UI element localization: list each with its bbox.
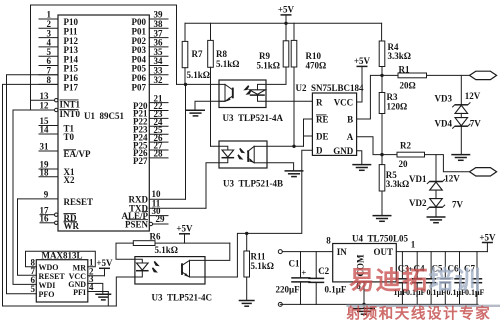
ground (U3B emitter) xyxy=(267,163,304,177)
svg-text:R8: R8 xyxy=(216,49,227,59)
zener VD1 12V xyxy=(409,155,460,191)
wire U3B collector to U2 RE/DE xyxy=(267,145,304,148)
IC U4 TL750L05 xyxy=(333,233,409,282)
U1 pin 10 RXD xyxy=(129,189,186,205)
svg-text:5.1kΩ: 5.1kΩ xyxy=(187,70,210,80)
svg-text:INT0: INT0 xyxy=(60,109,81,119)
svg-text:VCC: VCC xyxy=(334,98,354,108)
U1 pin 34 P05 xyxy=(132,56,169,74)
wire U3C cathode to bottom rail xyxy=(116,277,135,306)
MAX813L pin 7 RESET xyxy=(31,266,66,281)
svg-text:+5V: +5V xyxy=(354,56,371,66)
svg-text:U3 TLP521-4C: U3 TLP521-4C xyxy=(152,292,213,302)
capacitor C4 xyxy=(412,252,422,305)
U1 pin 21 P20 xyxy=(133,93,168,111)
resistor R4 3.3k xyxy=(379,23,411,77)
svg-text:3.3kΩ: 3.3kΩ xyxy=(386,179,409,189)
U1 pin 2 P11 xyxy=(39,19,78,37)
capacitor labels C3..C7 xyxy=(398,263,476,274)
svg-text:+5V: +5V xyxy=(176,224,193,234)
svg-text:WR: WR xyxy=(64,221,80,231)
U1 pin 33 P06 xyxy=(132,66,169,84)
+5V rail (top) xyxy=(185,22,382,24)
MAX813L pin 6 WDI xyxy=(31,275,56,290)
resistor R2 20 xyxy=(382,140,470,172)
U1 pin 12 INT0 xyxy=(31,101,81,119)
svg-text:470Ω: 470Ω xyxy=(306,61,327,71)
svg-text:31: 31 xyxy=(40,142,50,152)
IC MAX813L xyxy=(36,250,88,302)
U1 pin 11 TXD xyxy=(129,198,206,213)
U3B LED xyxy=(211,146,235,163)
svg-text:WDO: WDO xyxy=(39,263,59,272)
terminal (power in -) xyxy=(278,302,282,306)
U1 pin 18 X2 xyxy=(39,167,75,185)
label U3 TLP521-4B xyxy=(223,179,283,189)
U1 pin 28 P27 xyxy=(133,149,168,167)
wire IN line xyxy=(282,236,332,252)
+5V symbol (R6 line) xyxy=(176,224,193,244)
capacitor C1 220uF xyxy=(276,252,311,305)
svg-text:20Ω: 20Ω xyxy=(400,80,416,90)
U3A photo-transistor xyxy=(219,84,233,101)
svg-text:13: 13 xyxy=(40,91,50,101)
svg-text:OUT: OUT xyxy=(373,247,393,257)
capacitor C3 xyxy=(397,252,407,305)
svg-text:+5V: +5V xyxy=(479,232,496,242)
svg-text:INT1: INT1 xyxy=(60,99,81,109)
svg-text:RE: RE xyxy=(316,114,329,124)
capacitor C6 xyxy=(440,252,450,305)
U1 pin 7 P16 xyxy=(39,66,78,84)
U1 pin 6 P15 xyxy=(39,56,78,74)
wire P17 to bottom rail xyxy=(3,84,59,306)
U1 pin 1 P10 xyxy=(39,10,78,28)
wire P16 to MAX813L PFO xyxy=(7,75,59,294)
resistor R3 120 xyxy=(379,75,407,156)
U2 pin RE xyxy=(304,114,329,124)
label U3 TLP521-4C xyxy=(152,292,213,302)
wire TXD riser xyxy=(206,163,219,209)
opto-coupler U3 TLP521-4C xyxy=(135,257,205,284)
U3B light arrows xyxy=(237,148,245,160)
U1 pin 22 P21 xyxy=(133,101,168,119)
U1 pin 14 T0 xyxy=(39,125,75,143)
U2 pin A xyxy=(347,132,382,155)
opto-coupler U3 TLP521-4B xyxy=(219,141,267,168)
svg-text:T0: T0 xyxy=(64,132,75,142)
svg-text:VD1: VD1 xyxy=(409,174,427,184)
U3A light arrows xyxy=(243,85,251,95)
svg-text:EA/VP: EA/VP xyxy=(64,149,92,159)
svg-text:RESET: RESET xyxy=(64,197,94,207)
U2 pin D xyxy=(316,146,323,156)
svg-text:MAX813L: MAX813L xyxy=(42,250,83,260)
svg-text:B: B xyxy=(347,114,353,124)
svg-text:D: D xyxy=(316,146,323,156)
resistor R10 470 xyxy=(291,23,326,146)
svg-text:易迪拓培训: 易迪拓培训 xyxy=(349,266,482,295)
U1 pin 38 P01 xyxy=(132,19,169,37)
svg-text:5: 5 xyxy=(31,284,36,294)
svg-text:VD3: VD3 xyxy=(435,93,453,103)
wire U3C emitter to D net xyxy=(205,276,237,278)
ground (R5) xyxy=(373,216,392,222)
ground (MAX813L) xyxy=(95,294,111,300)
MAX813L pin 2 VCC xyxy=(69,266,105,281)
label U3 TLP521-4A xyxy=(223,113,284,123)
U2 pin VCC xyxy=(334,66,362,107)
svg-text:5.1kΩ: 5.1kΩ xyxy=(257,61,280,71)
U2 pin GND xyxy=(333,146,362,165)
node P07/R7/RXD junction xyxy=(177,83,220,86)
svg-text:8: 8 xyxy=(326,236,331,246)
svg-text:1: 1 xyxy=(411,240,416,250)
+5V symbol (U4 OUT) xyxy=(479,232,496,251)
svg-text:DE: DE xyxy=(316,131,329,141)
U1 pin 13 INT1 xyxy=(31,91,81,109)
svg-text:12: 12 xyxy=(40,101,50,111)
svg-text:R11: R11 xyxy=(251,251,267,261)
wire U3A LED cathode to U2 R xyxy=(266,100,312,102)
svg-text:5.1kΩ: 5.1kΩ xyxy=(216,59,239,69)
zener VD2 7V xyxy=(409,190,464,217)
U2 pin DE xyxy=(304,119,329,146)
U1 pin 23 P22 xyxy=(133,109,168,127)
U1 pin 8 P17 xyxy=(39,75,78,93)
wire U2 D net xyxy=(237,150,312,277)
wire WDO-MR loop xyxy=(26,251,96,267)
U1 pin 16 WR xyxy=(40,214,80,232)
U1 pin 29 PSEN xyxy=(125,214,168,229)
svg-text:WDI: WDI xyxy=(39,281,56,290)
svg-text:7V: 7V xyxy=(470,119,482,129)
wire INT0 to MAX813L WDI xyxy=(13,110,36,284)
MAX813L pin 1 MR xyxy=(73,258,94,273)
MAX813L pin 3 GND xyxy=(68,274,103,294)
connector lug (R1 line A) xyxy=(470,71,497,79)
U2 pin R xyxy=(316,98,323,108)
svg-text:R: R xyxy=(316,98,323,108)
+5V symbol (top rail) xyxy=(278,5,295,25)
ground (VD3/VD4) xyxy=(451,155,470,161)
svg-text:29: 29 xyxy=(156,214,166,224)
svg-text:IN: IN xyxy=(337,247,348,257)
capacitor values xyxy=(394,288,485,297)
svg-text:C2: C2 xyxy=(318,266,329,276)
resistor R6 5.1k xyxy=(116,231,230,259)
resistor R8 5.1k xyxy=(208,23,240,146)
svg-text:X2: X2 xyxy=(64,175,75,185)
svg-text:16: 16 xyxy=(40,214,50,224)
svg-text:P27: P27 xyxy=(133,156,148,166)
svg-text:U3 TLP521-4A: U3 TLP521-4A xyxy=(223,113,284,123)
svg-text:P06: P06 xyxy=(132,73,147,83)
watermark slogan xyxy=(346,304,492,321)
resistor R5 3.3k xyxy=(379,155,409,216)
svg-text:PSEN: PSEN xyxy=(125,219,149,229)
svg-text:VD4: VD4 xyxy=(435,119,453,129)
svg-text:RESET: RESET xyxy=(39,272,66,281)
wire capacitor bottom rail xyxy=(280,303,478,305)
ground (U4 COM) xyxy=(353,309,375,315)
wire R6 line to U3C collector xyxy=(205,243,230,260)
svg-text:12V: 12V xyxy=(465,91,481,101)
U1 pin 36 P03 xyxy=(132,38,169,56)
U1 pin 37 P02 xyxy=(132,28,169,46)
U1 pin 32 P07 xyxy=(132,75,169,93)
svg-text:P07: P07 xyxy=(132,83,147,93)
svg-text:18: 18 xyxy=(40,167,50,177)
zener VD4 7V xyxy=(435,113,482,154)
U4 COM pin 6 to ground xyxy=(356,281,365,308)
wire INT1/INT0 to top rail xyxy=(31,5,177,110)
svg-text:33: 33 xyxy=(154,66,164,76)
svg-text:PFI: PFI xyxy=(73,288,86,297)
U1 pin 39 P00 xyxy=(132,10,169,28)
zener VD3 12V xyxy=(435,75,481,113)
U1 pin 15 T1 xyxy=(39,116,75,134)
U1 pin 25 P24 xyxy=(133,125,168,143)
ground (U2 GND) xyxy=(352,165,371,171)
ground (VD1/VD2) xyxy=(427,217,446,223)
U1 pin 27 P26 xyxy=(133,141,168,159)
resistor R9 5.1k xyxy=(257,23,289,84)
ground (U3A emitter) xyxy=(186,101,225,116)
svg-text:8: 8 xyxy=(47,75,52,85)
svg-text:U4 TL750L05: U4 TL750L05 xyxy=(352,233,409,243)
svg-text:220μF: 220μF xyxy=(276,285,301,295)
svg-text:4: 4 xyxy=(89,282,94,292)
U3C photo-transistor xyxy=(182,260,206,277)
svg-text:A: A xyxy=(347,132,354,142)
svg-text:GND: GND xyxy=(333,146,354,156)
opto-coupler U3 TLP521-4A xyxy=(219,80,266,108)
svg-text:射频和天线设计专家: 射频和天线设计专家 xyxy=(346,304,492,321)
svg-text:U1 89C51: U1 89C51 xyxy=(84,111,124,121)
svg-text:C1: C1 xyxy=(289,258,300,268)
svg-text:5.1kΩ: 5.1kΩ xyxy=(251,261,274,271)
svg-text:PFO: PFO xyxy=(39,290,55,299)
IC U2 SN75LBC184 xyxy=(296,83,365,155)
capacitor C7 xyxy=(454,252,464,305)
connector lug (R2 line B) xyxy=(470,168,497,176)
U2 pin B xyxy=(347,75,381,124)
ground (R11) xyxy=(239,301,255,307)
svg-text:R2: R2 xyxy=(400,140,411,150)
resistor R7 5.1k xyxy=(182,23,210,84)
wire U1 RESET to MAX813L RESET xyxy=(18,199,37,275)
U3B photo-transistor xyxy=(248,146,267,163)
svg-text:3.3kΩ: 3.3kΩ xyxy=(388,51,411,61)
capacitor C5 xyxy=(426,252,436,305)
svg-text:14: 14 xyxy=(40,125,50,135)
U1 pin 5 P14 xyxy=(39,47,78,65)
U3C light arrows xyxy=(152,261,160,273)
svg-text:P17: P17 xyxy=(64,83,79,93)
svg-text:R6: R6 xyxy=(150,231,161,241)
MAX813L pin 8 WDO xyxy=(31,257,59,272)
svg-text:7V: 7V xyxy=(452,200,464,210)
svg-text:U3 TLP521-4B: U3 TLP521-4B xyxy=(223,179,283,189)
wire RXD riser xyxy=(185,84,187,199)
svg-text:120Ω: 120Ω xyxy=(387,101,408,111)
svg-text:R1: R1 xyxy=(399,64,410,74)
MAX813L pin 4 PFI xyxy=(73,282,108,306)
svg-text:U2 SN75LBC184: U2 SN75LBC184 xyxy=(296,83,365,93)
U1 pin 4 P13 xyxy=(39,38,78,56)
U1 pin 3 P12 xyxy=(39,28,78,46)
svg-text:+: + xyxy=(301,267,306,277)
U3C LED xyxy=(135,259,149,277)
U1 pin 24 P23 xyxy=(133,117,168,135)
U3A LED xyxy=(250,84,267,101)
svg-text:28: 28 xyxy=(154,149,164,159)
svg-text:32: 32 xyxy=(154,75,164,85)
svg-text:R7: R7 xyxy=(192,49,203,59)
svg-text:12V: 12V xyxy=(444,173,460,183)
+5V symbol (U2 VCC) xyxy=(354,56,371,66)
resistor R1 20 xyxy=(382,64,470,90)
capacitor C7b xyxy=(472,252,482,305)
U1 pin 26 P25 xyxy=(133,133,168,151)
svg-text:20: 20 xyxy=(399,159,409,169)
watermark underline xyxy=(346,305,500,307)
U1 pin 35 P04 xyxy=(132,47,169,65)
MAX813L pin 5 PFO xyxy=(31,284,55,299)
wire OUT line xyxy=(396,240,487,252)
U1 pin 30 ALE/P xyxy=(121,206,168,221)
svg-text:7: 7 xyxy=(47,66,52,76)
svg-text:5.1kΩ: 5.1kΩ xyxy=(155,245,178,255)
U1 pin 19 X1 xyxy=(39,160,75,178)
svg-text:9: 9 xyxy=(44,190,49,200)
svg-text:0.1μF: 0.1μF xyxy=(325,285,347,295)
resistor R11 5.1k xyxy=(244,232,274,301)
+5V symbol (MAX813L VCC) xyxy=(96,258,113,268)
bottom rail wire xyxy=(3,305,117,307)
svg-text:+5V: +5V xyxy=(96,258,113,268)
terminal (power in +) xyxy=(278,250,282,254)
svg-text:+5V: +5V xyxy=(278,5,295,15)
watermark logo xyxy=(349,266,482,295)
U1 pin 9 RESET xyxy=(18,190,94,208)
IC U1 89C51 body xyxy=(58,15,149,231)
U1 pin 17 RD xyxy=(40,205,77,223)
capacitor C2 0.1uF xyxy=(308,252,347,305)
U1 pin 31 EA/VP xyxy=(39,142,91,160)
svg-text:VD2: VD2 xyxy=(409,198,427,208)
svg-text:P16: P16 xyxy=(64,73,79,83)
